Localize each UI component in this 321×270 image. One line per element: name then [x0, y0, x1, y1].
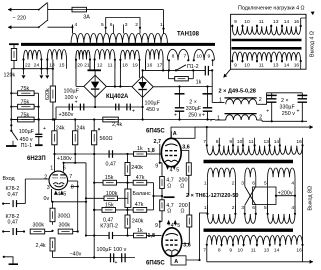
- svg-text:24: 24: [34, 63, 40, 69]
- svg-text:11: 11: [108, 63, 113, 69]
- svg-text:100µF: 100µF: [145, 101, 161, 107]
- svg-text:6: 6: [252, 180, 255, 186]
- svg-text:17: 17: [157, 63, 163, 69]
- svg-text:Баланс: Баланс: [133, 191, 152, 197]
- svg-text:+200v: +200v: [278, 190, 293, 196]
- svg-text:+: +: [43, 126, 46, 132]
- svg-text:250 v: 250 v: [282, 111, 295, 117]
- svg-text:3A: 3A: [83, 14, 90, 20]
- svg-text:1: 1: [50, 165, 53, 171]
- svg-text:9: 9: [155, 223, 158, 229]
- svg-text:9: 9: [234, 63, 237, 69]
- svg-text:6: 6: [252, 205, 255, 211]
- svg-text:7: 7: [184, 54, 187, 60]
- svg-text:240k: 240k: [131, 165, 143, 171]
- svg-text:5: 5: [264, 205, 267, 211]
- svg-text:24k: 24k: [77, 125, 86, 131]
- svg-text:2: 2: [259, 97, 262, 103]
- svg-text:3: 3: [241, 180, 244, 186]
- svg-text:4: 4: [171, 223, 174, 229]
- svg-text:7: 7: [203, 248, 206, 254]
- svg-text:0,47: 0,47: [103, 217, 113, 223]
- svg-text:2: 2: [135, 22, 138, 28]
- svg-text:4: 4: [291, 180, 294, 186]
- svg-text:1k: 1k: [196, 79, 202, 85]
- svg-text:+: +: [266, 109, 269, 115]
- svg-text:47k: 47k: [136, 175, 145, 181]
- svg-text:2: 2: [232, 180, 235, 186]
- svg-text:24k: 24k: [56, 125, 65, 131]
- svg-text:1,8: 1,8: [148, 233, 155, 239]
- svg-text:560Ω: 560Ω: [100, 136, 113, 142]
- svg-text:П1-2: П1-2: [187, 64, 199, 70]
- svg-text:4: 4: [170, 168, 173, 174]
- svg-text:2 × Д49-5-0,28: 2 × Д49-5-0,28: [219, 88, 256, 94]
- svg-text:Выход 4 Ω: Выход 4 Ω: [310, 31, 316, 57]
- svg-text:КЦ402А: КЦ402А: [106, 94, 129, 100]
- svg-text:9: 9: [234, 19, 237, 25]
- svg-text:+: +: [202, 113, 205, 119]
- svg-text:16: 16: [294, 63, 300, 69]
- svg-text:620k: 620k: [45, 88, 51, 100]
- svg-text:14: 14: [274, 248, 280, 254]
- svg-text:1: 1: [204, 180, 207, 186]
- svg-text:22: 22: [25, 63, 31, 69]
- svg-text:1k: 1k: [137, 146, 143, 152]
- svg-text:4: 4: [75, 22, 78, 28]
- svg-text:300k: 300k: [59, 223, 71, 229]
- svg-text:13: 13: [264, 248, 270, 254]
- svg-text:2: 2: [259, 115, 262, 121]
- svg-text:+: +: [115, 260, 118, 266]
- svg-text:15: 15: [59, 63, 65, 69]
- svg-text:Вход: Вход: [3, 176, 16, 182]
- svg-text:16: 16: [296, 248, 302, 254]
- svg-text:300k: 300k: [33, 223, 45, 229]
- svg-text:100 v: 100 v: [65, 95, 78, 101]
- svg-text:0,47: 0,47: [8, 220, 18, 226]
- svg-text:+: +: [297, 109, 300, 115]
- svg-text:0,47: 0,47: [8, 192, 18, 198]
- svg-text:9: 9: [155, 163, 158, 169]
- svg-text:9: 9: [208, 54, 211, 60]
- svg-text:13: 13: [49, 63, 55, 69]
- svg-text:+: +: [174, 113, 177, 119]
- svg-text:5: 5: [177, 223, 180, 229]
- svg-text:75k: 75k: [21, 100, 30, 106]
- svg-text:8: 8: [216, 139, 219, 145]
- svg-text:47k: 47k: [135, 202, 144, 208]
- svg-text:5: 5: [264, 180, 267, 186]
- svg-text:330µF: 330µF: [186, 106, 202, 112]
- svg-text:13: 13: [273, 63, 279, 69]
- svg-text:2: 2: [44, 175, 47, 181]
- svg-text:~ 220: ~ 220: [13, 15, 26, 21]
- svg-text:8: 8: [71, 185, 74, 191]
- svg-text:5: 5: [63, 191, 66, 197]
- svg-text:Подключение нагрузки 4 Ω: Подключение нагрузки 4 Ω: [238, 5, 305, 11]
- svg-text:9: 9: [229, 248, 232, 254]
- svg-text:А: А: [173, 131, 177, 137]
- svg-text:6П45С: 6П45С: [146, 129, 165, 135]
- svg-text:5: 5: [176, 168, 179, 174]
- svg-text:450 v: 450 v: [146, 107, 159, 113]
- svg-text:−40v: −40v: [70, 252, 82, 258]
- svg-text:21: 21: [84, 63, 90, 69]
- svg-text:Ω: Ω: [167, 209, 171, 215]
- svg-text:10: 10: [238, 248, 244, 254]
- svg-text:3: 3: [125, 22, 128, 28]
- svg-text:11: 11: [251, 248, 256, 254]
- svg-text:11: 11: [259, 63, 264, 69]
- svg-text:3: 3: [241, 205, 244, 211]
- svg-text:10: 10: [244, 19, 250, 25]
- svg-text:2,4k: 2,4k: [36, 243, 46, 249]
- svg-text:Ω: Ω: [167, 183, 171, 189]
- svg-text:2 ×: 2 ×: [189, 99, 197, 105]
- svg-text:120k: 120k: [4, 73, 16, 79]
- svg-text:Ω: Ω: [181, 209, 185, 215]
- svg-text:14: 14: [274, 139, 280, 145]
- svg-text:К73П-2: К73П-2: [100, 224, 118, 230]
- svg-text:4: 4: [57, 191, 60, 197]
- svg-text:П1-1: П1-1: [21, 143, 33, 149]
- svg-text:7: 7: [69, 174, 72, 180]
- svg-text:1,8: 1,8: [147, 148, 154, 154]
- svg-text:6Н23П: 6Н23П: [27, 156, 46, 162]
- svg-text:250 v: 250 v: [188, 113, 201, 119]
- svg-text:8: 8: [172, 54, 175, 60]
- svg-text:+: +: [132, 109, 135, 115]
- svg-text:13: 13: [273, 19, 279, 25]
- svg-text:20: 20: [77, 63, 83, 69]
- svg-text:0,47: 0,47: [106, 162, 116, 168]
- svg-text:А: А: [174, 259, 178, 265]
- svg-text:240k: 240k: [132, 219, 144, 225]
- svg-text:14: 14: [284, 19, 290, 25]
- svg-text:1k: 1k: [137, 228, 143, 234]
- svg-text:2 × ТН61-127/220-50: 2 × ТН61-127/220-50: [186, 193, 238, 199]
- svg-text:16: 16: [147, 63, 153, 69]
- svg-text:12: 12: [97, 63, 103, 69]
- svg-text:11: 11: [249, 139, 254, 145]
- svg-text:3: 3: [47, 185, 50, 191]
- svg-text:15k: 15k: [105, 202, 114, 208]
- svg-text:100µF: 100µF: [64, 89, 80, 95]
- svg-text:1: 1: [160, 22, 163, 28]
- svg-text:1: 1: [217, 116, 220, 122]
- svg-text:15k: 15k: [105, 175, 114, 181]
- svg-text:1: 1: [219, 98, 222, 104]
- svg-text:1: 1: [204, 205, 207, 211]
- svg-text:4: 4: [291, 205, 294, 211]
- svg-text:330µF: 330µF: [280, 104, 296, 110]
- svg-text:14: 14: [284, 63, 290, 69]
- svg-text:5: 5: [101, 22, 104, 28]
- svg-text:Выход 8Ω: Выход 8Ω: [308, 186, 314, 210]
- svg-text:2: 2: [232, 205, 235, 211]
- svg-text:3,6: 3,6: [182, 145, 189, 151]
- svg-text:75k: 75k: [21, 86, 30, 92]
- svg-text:7: 7: [203, 139, 206, 145]
- svg-text:300Ω: 300Ω: [58, 214, 71, 220]
- svg-text:10: 10: [244, 63, 250, 69]
- svg-text:2 ×: 2 ×: [281, 98, 289, 104]
- svg-text:100µF: 100µF: [19, 129, 35, 135]
- svg-text:6П45С: 6П45С: [146, 261, 165, 267]
- svg-text:11: 11: [259, 19, 264, 25]
- svg-text:19: 19: [132, 63, 138, 69]
- svg-text:75k: 75k: [21, 112, 30, 118]
- svg-text:16: 16: [296, 139, 302, 145]
- svg-text:10: 10: [237, 139, 243, 145]
- svg-text:8: 8: [218, 248, 221, 254]
- svg-text:Ω: Ω: [180, 183, 184, 189]
- svg-text:18: 18: [122, 63, 128, 69]
- svg-text:9: 9: [229, 139, 232, 145]
- svg-text:2,4k: 2,4k: [112, 122, 122, 128]
- svg-text:ТАН108: ТАН108: [177, 32, 200, 38]
- svg-text:100µF 100 v: 100µF 100 v: [97, 247, 127, 253]
- svg-text:10: 10: [196, 54, 202, 60]
- svg-text:6: 6: [110, 22, 113, 28]
- svg-text:+360v: +360v: [59, 112, 74, 118]
- svg-text:+180v: +180v: [57, 156, 72, 162]
- svg-text:13: 13: [264, 139, 270, 145]
- svg-text:0v: 0v: [44, 196, 50, 202]
- svg-text:16: 16: [294, 19, 300, 25]
